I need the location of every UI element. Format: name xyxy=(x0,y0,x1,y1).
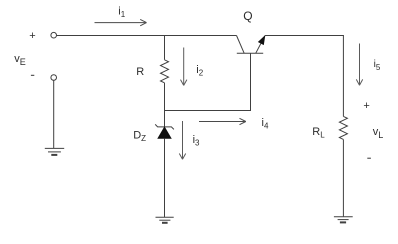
wire transistor emitter to load branch xyxy=(265,35,344,37)
svg-text:+: + xyxy=(29,30,35,42)
current arrow i1 xyxy=(95,19,147,25)
svg-text:vE: vE xyxy=(14,53,26,67)
svg-text:i2: i2 xyxy=(196,64,203,78)
ground (middle) xyxy=(156,217,174,223)
current arrow i3 xyxy=(179,121,185,159)
ground (right) xyxy=(334,217,353,223)
svg-text:Q: Q xyxy=(243,9,252,23)
resistor R xyxy=(161,60,169,83)
zener diode DZ anode triangle xyxy=(158,127,171,138)
wire transistor base vertical xyxy=(250,53,252,110)
wire RL bottom to ground xyxy=(342,140,344,217)
current arrow i5 xyxy=(356,44,362,86)
current arrow i4 xyxy=(199,118,246,124)
transistor Q collector slant xyxy=(237,36,245,54)
wire load branch down to RL xyxy=(342,36,344,117)
transistor Q emitter arrowhead xyxy=(259,36,265,44)
current arrow i2 xyxy=(181,48,187,86)
wire top from input terminal to transistor collector xyxy=(57,35,237,37)
wire zener anode to ground xyxy=(164,138,166,217)
node + terminal (top input terminal) xyxy=(51,32,57,38)
node - terminal (bottom input terminal) xyxy=(51,75,57,81)
transistor Q emitter slant xyxy=(256,36,265,53)
wire input node down to resistor R xyxy=(164,36,166,60)
resistor RL xyxy=(339,116,347,139)
label - (input polarity minus) xyxy=(31,74,34,76)
svg-text:RL: RL xyxy=(312,126,325,140)
label - (load polarity minus) xyxy=(367,157,371,159)
wire bottom input terminal to ground xyxy=(53,80,55,148)
ground (left) xyxy=(45,148,64,155)
svg-text:i5: i5 xyxy=(374,59,381,72)
svg-text:i4: i4 xyxy=(262,117,269,131)
svg-text:i3: i3 xyxy=(193,134,200,148)
svg-text:i1: i1 xyxy=(118,6,125,20)
wire node to transistor base (horizontal) xyxy=(165,110,252,112)
svg-text:+: + xyxy=(363,100,369,112)
svg-text:R: R xyxy=(136,66,144,78)
svg-text:DZ: DZ xyxy=(133,130,146,143)
svg-text:vL: vL xyxy=(373,126,384,140)
transistor Q base bar xyxy=(237,52,263,54)
zener diode DZ cathode bar xyxy=(155,124,174,129)
wire resistor R bottom to zener cathode xyxy=(164,83,166,127)
